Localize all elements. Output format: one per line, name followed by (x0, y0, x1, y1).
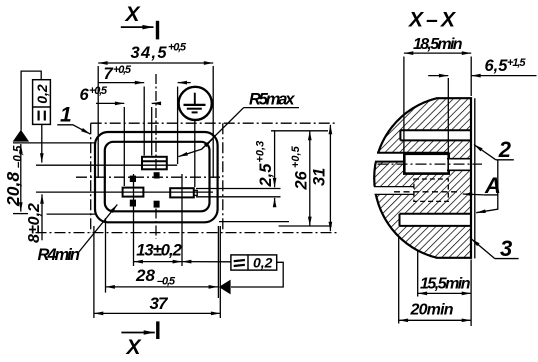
tick for 20,8 bottom (13, 213, 28, 215)
leader from frame to slot axis (182, 261, 231, 263)
hanger line top right (271, 130, 328, 132)
dimension 28-0,5 (106, 218, 219, 298)
hanger line bottom right (279, 225, 332, 227)
svg-text:X–X: X–X (408, 9, 457, 32)
svg-text:R4min: R4min (38, 246, 81, 264)
svg-text:2,5: 2,5 (257, 163, 275, 188)
svg-text:–0,5: –0,5 (13, 145, 25, 168)
svg-text:20min: 20min (410, 302, 454, 319)
parallelism symbol bars (rotated frame) (39, 111, 45, 121)
section marker X top: arrow (121, 26, 154, 28)
dimension 15,5min (418, 250, 471, 326)
cutting plane trace (chain line) (155, 74, 157, 239)
zone A leader (463, 193, 484, 196)
earthing symbol circle (179, 87, 212, 120)
R4min leader (78, 205, 117, 254)
zone A underline (484, 194, 498, 196)
svg-text:26: 26 (293, 170, 311, 190)
svg-text:34,5: 34,5 (131, 44, 168, 62)
dimension 6,5+1,5 (428, 76, 536, 153)
R5max leader diagonal with two arrows (178, 108, 243, 157)
parallelism frame (bottom) (231, 255, 277, 270)
dimension 6+0,5 (96, 103, 161, 186)
svg-text:0,2: 0,2 (34, 84, 50, 104)
pos.3 leader (471, 239, 495, 259)
top slot cutout (400, 130, 472, 140)
frame leader to datum triangle (231, 262, 283, 287)
earth pin channel (open to arc) (374, 153, 405, 162)
earth slot (top) (142, 157, 177, 170)
extension line y214 (47, 213, 95, 215)
svg-text:3: 3 (500, 236, 512, 261)
dimension 37 (94, 226, 220, 318)
earthing symbol: stem and bars (184, 93, 206, 113)
earth slot lower edge extension line (36, 164, 142, 166)
dimension 26+0,5 (309, 131, 311, 226)
dimension 18,5min (404, 53, 471, 153)
svg-text:28: 28 (135, 266, 155, 285)
bottom slot cutout (400, 214, 471, 226)
earth contact centre line (378, 163, 483, 165)
svg-text:6,5: 6,5 (485, 57, 509, 75)
dimension 8±0,2 (41, 194, 43, 240)
svg-text:+1,5: +1,5 (507, 57, 526, 69)
section marker X top: thick bar (156, 21, 159, 40)
section marker X bottom: arrow (121, 332, 154, 334)
dimension 2,5+0,3 (274, 131, 276, 206)
dimension 34,5+0,5 (98, 63, 213, 178)
zone A dashed centre line (394, 191, 461, 193)
pos.3 underline (495, 258, 519, 260)
pos.1 leader (57, 125, 90, 134)
slot mid line across (36, 191, 213, 193)
horizontal centre line of face (76, 176, 223, 178)
gasket line (pos.3) (474, 98, 476, 258)
svg-text:+0,3: +0,3 (255, 141, 267, 163)
svg-text:1: 1 (60, 103, 72, 126)
frame bottom leader arrow down (41, 124, 43, 162)
face bottom extension right (219, 221, 289, 223)
svg-text:7: 7 (104, 65, 114, 83)
dimension 20min (399, 236, 471, 324)
inner recess rounded rectangle (105, 142, 210, 212)
svg-text:+0,5: +0,5 (113, 64, 132, 76)
right slot lower edge extension (196, 196, 281, 198)
svg-text:6: 6 (80, 86, 90, 104)
svg-text:–0,5: –0,5 (157, 276, 176, 288)
pos.2 leader fork (474, 145, 498, 213)
section body with hatching (374, 98, 471, 258)
dimension 7+0,5 (98, 83, 191, 164)
datum filled triangle (13, 130, 29, 142)
parallelism symbol bars (bottom frame) (234, 260, 245, 266)
body flat right edge (470, 97, 472, 259)
svg-text:2: 2 (498, 137, 512, 162)
svg-text:0,2: 0,2 (253, 255, 273, 271)
svg-text:13±0,2: 13±0,2 (136, 242, 182, 260)
svg-text:18,5min: 18,5min (413, 36, 463, 53)
earth circle extension line down (194, 120, 196, 187)
section marker X bottom: thick bar (156, 321, 159, 339)
svg-text:+0,5: +0,5 (168, 42, 187, 54)
svg-text:20,8: 20,8 (3, 172, 23, 207)
pos.2 underline (496, 159, 514, 161)
stepped-cut thick squares (130, 172, 160, 207)
svg-text:X: X (126, 336, 143, 359)
svg-text:X: X (125, 3, 142, 26)
svg-text:8±0,2: 8±0,2 (26, 203, 43, 243)
svg-text:15,5min: 15,5min (420, 276, 471, 293)
right contact slot (170, 188, 197, 197)
outer face rounded rectangle (95, 132, 218, 222)
dimension 13±0,2 (134, 174, 183, 266)
earth pin opening to face (449, 159, 471, 171)
earth contact tube (404, 154, 448, 174)
left contact slot (123, 188, 144, 197)
svg-text:R5max: R5max (249, 91, 295, 109)
datum leader from frame top to triangle (21, 71, 41, 130)
svg-text:+0,5: +0,5 (89, 85, 108, 97)
dimension 31 (329, 125, 331, 231)
svg-text:+0,5: +0,5 (290, 145, 302, 168)
parallelism frame (rotated) (33, 80, 51, 125)
R5max leader underline (244, 107, 299, 109)
svg-text:37: 37 (150, 294, 170, 313)
dimension 20,8-0,5 (20, 144, 22, 212)
svg-text:31: 31 (311, 168, 329, 186)
right slot upper edge extension (196, 188, 281, 190)
hidden contact channel (zone A level) (373, 187, 414, 195)
appliance outline chain box (pos.1 contour) (36, 123, 338, 232)
zone A dashed rectangle (414, 179, 448, 201)
datum filled triangle (bottom) (219, 280, 231, 295)
datum feature line (13, 142, 95, 144)
